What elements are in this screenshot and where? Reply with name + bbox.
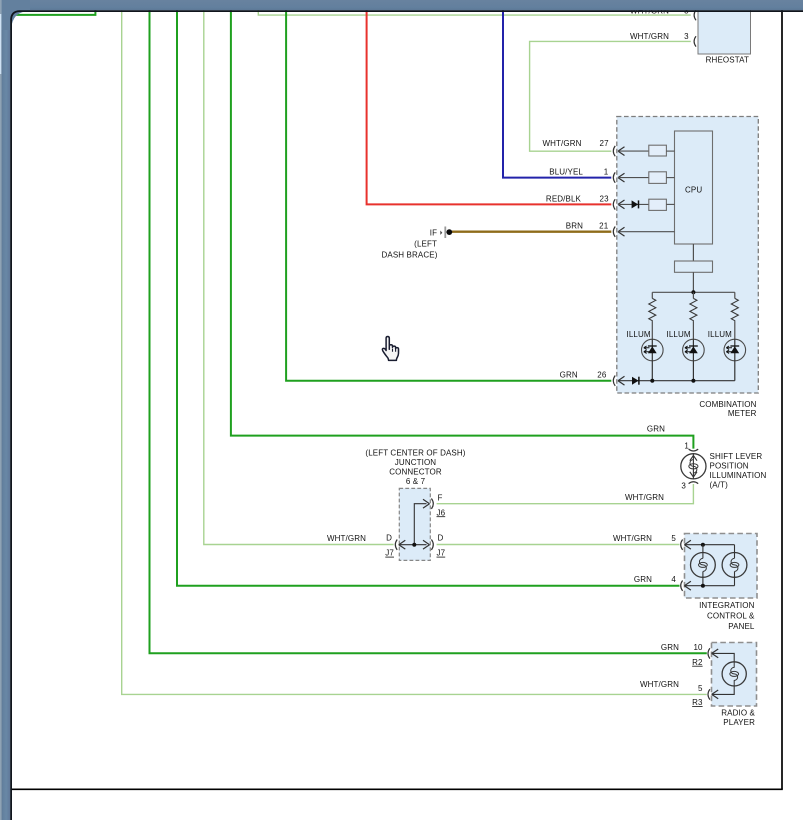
radio bulb wiring bottom [712,686,735,695]
svg-text:R2: R2 [692,658,703,667]
combination meter box [617,117,759,418]
junction pin D left arrow [399,540,406,549]
svg-text:5: 5 [698,684,703,693]
resistor block below CPU [675,261,713,272]
svg-text:WHT/GRN: WHT/GRN [640,680,679,689]
radio pin 5 arrow [712,690,719,699]
svg-text:27: 27 [600,139,610,148]
svg-text:DASH BRACE): DASH BRACE) [382,251,438,260]
radio bulb [722,662,746,686]
svg-text:10: 10 [693,643,703,652]
ILLUM bulb 2 [683,339,705,381]
label (LEFT DASH BRACE) [382,240,438,260]
wire WHT/GRN 5 to radio [122,10,707,694]
wire WHT/GRN top to rheostat pin (partially hidden by frame) [258,10,691,15]
svg-text:1: 1 [604,168,609,177]
meter pin 26 connector [613,376,624,386]
wire BLU/YEL 1 [503,10,611,178]
pin 27 input block [649,145,667,156]
junction pin D right arrow [423,540,430,549]
rheostat pin 3 connector [694,36,696,46]
pin 23 input block [649,199,667,210]
rheostat pin top connector [694,10,696,20]
radio bulb wiring top [712,653,735,662]
integration bottom wire [684,585,734,587]
rheostat box [698,6,751,64]
wire GRN 10 to radio [150,10,707,653]
svg-text:INTEGRATION: INTEGRATION [699,601,754,610]
meter pin 27 connector [613,146,648,156]
junction dot bus center [691,290,695,294]
svg-text:3: 3 [681,482,686,491]
mouse cursor hand pointer [382,337,398,361]
svg-text:BLU/YEL: BLU/YEL [549,168,583,177]
junction dot return bus 1 [650,379,654,383]
radio pin 5 connector arc [708,689,710,699]
svg-text:WHT/GRN: WHT/GRN [542,139,581,148]
pin 1 input block [649,172,667,184]
svg-text:GRN: GRN [560,371,578,380]
svg-text:PANEL: PANEL [728,622,755,631]
wire WHT/GRN junction pin D right to integration pin 5 [437,544,680,546]
svg-text:26: 26 [597,371,607,380]
svg-text:WHT/GRN: WHT/GRN [613,534,652,543]
svg-text:J6: J6 [437,508,446,517]
wire GRN stub top-left [12,10,95,15]
integration bulb right [722,545,747,586]
svg-text:PLAYER: PLAYER [723,718,755,727]
junction dot [412,543,416,547]
illumination top bus [652,291,735,293]
svg-text:CONTROL &: CONTROL & [707,612,755,621]
svg-text:F: F [438,493,443,502]
junction pin F arrow [423,499,430,508]
junction internal wire D-D [399,544,427,546]
svg-text:GRN: GRN [634,575,652,584]
svg-text:(LEFT CENTER OF DASH): (LEFT CENTER OF DASH) [365,448,465,457]
junction pin D left connector arc [395,540,397,550]
svg-text:CONNECTOR: CONNECTOR [389,467,442,476]
illumination return bus [618,380,735,382]
svg-text:ILLUMINATION: ILLUMINATION [710,471,767,480]
junction pin F connector arc [431,499,433,509]
svg-text:GRN: GRN [647,424,665,433]
wire GRN 26 to combination meter [286,10,611,381]
integration pin 4 connector arc [681,581,683,591]
svg-text:COMBINATION: COMBINATION [699,400,756,409]
resistor branch 1 [649,292,656,339]
label SHIFT LEVER POSITION ILLUMINATION (A/T) [710,452,767,490]
wire block to bus [692,272,694,292]
svg-text:RADIO &: RADIO & [721,709,755,718]
svg-text:4: 4 [671,575,676,584]
svg-text:J7: J7 [385,549,394,558]
svg-text:D: D [438,534,444,543]
svg-text:RHEOSTAT: RHEOSTAT [706,55,749,64]
svg-text:D: D [386,534,392,543]
junction pin D right connector arc [431,540,433,550]
svg-text:IF: IF [430,228,437,237]
integration control panel box [685,534,758,599]
diode at pin 23 [632,200,639,208]
CPU U1 [675,131,713,244]
junction dot integration bottom [701,584,705,588]
svg-text:WHT/GRN: WHT/GRN [327,534,366,543]
window frame left edge sliver [0,0,2,820]
wire pin1 block to CPU [666,177,674,179]
integration pin 4 arrow [684,581,691,590]
svg-text:METER: METER [728,409,757,418]
resistor branch 2 [690,292,697,339]
svg-text:J7: J7 [437,549,446,558]
integration pin 5 connector arc [681,540,683,550]
diode at pin 26 [632,377,639,385]
svg-text:POSITION: POSITION [710,461,749,470]
svg-text:BRN: BRN [566,222,583,231]
svg-text:5: 5 [671,534,676,543]
junction dot return bus 2 [691,379,695,383]
svg-text:ILLUM: ILLUM [627,330,651,339]
wire BRN 21 [452,230,611,232]
shift bulb pin 3 connector [689,482,699,484]
junction internal wire F [414,504,426,545]
svg-text:1: 1 [684,441,689,450]
svg-text:RED/BLK: RED/BLK [546,194,582,203]
window frame top bar [0,0,803,10]
ILLUM bulb 3 [724,339,746,381]
svg-text:(A/T): (A/T) [710,480,729,489]
svg-text:6 & 7: 6 & 7 [406,477,426,486]
wire pin27 block to CPU [666,150,674,152]
svg-text:(LEFT: (LEFT [414,240,437,249]
meter pin 23 connector [613,199,648,209]
window frame corner fill [0,0,30,30]
svg-text:SHIFT LEVER: SHIFT LEVER [710,452,763,461]
integration top wire [684,544,734,546]
meter pin 21 connector [613,227,674,237]
svg-text:3: 3 [684,32,689,41]
svg-text:JUNCTION: JUNCTION [395,458,437,467]
junction dot integration top [701,543,705,547]
label INTEGRATION CONTROL & PANEL [699,601,755,631]
wire WHT/GRN 3 to rheostat [530,41,691,151]
junction connector box J6/J7 [399,488,430,560]
wire GRN to shift lever illumination [231,10,694,449]
wire GRN 4 to integration panel [177,10,680,586]
wire WHT/GRN shift lever pin3 to junction pin F [437,484,694,504]
radio pin 10 arrow [712,649,719,658]
shift lever illumination bulb [681,454,706,479]
window frame left bar [0,0,10,820]
label RADIO & PLAYER [721,709,755,727]
svg-text:WHT/GRN: WHT/GRN [630,32,669,41]
wire pin23 block to CPU [666,203,674,205]
shift bulb pin 1 connector [689,449,699,451]
svg-text:ILLUM: ILLUM [667,330,691,339]
wire RED/BLK 23 [367,10,612,204]
svg-text:ILLUM: ILLUM [708,330,732,339]
meter pin 1 connector [613,172,648,182]
cpu output link [692,244,694,261]
radio and player box [712,643,757,707]
svg-text:R3: R3 [692,698,703,707]
svg-text:CPU: CPU [685,185,702,194]
svg-text:WHT/GRN: WHT/GRN [625,493,664,502]
svg-text:21: 21 [599,222,609,231]
wire WHT/GRN to junction pin D left [204,10,394,545]
svg-text:23: 23 [600,194,610,203]
diagram sheet right border [781,10,783,789]
ILLUM bulb 1 [642,339,664,381]
node IF (left dash brace) [430,227,452,239]
svg-text:GRN: GRN [661,643,679,652]
diagram sheet bottom border [11,788,783,790]
integration pin 5 arrow [684,540,691,549]
resistor branch 3 [731,292,738,339]
radio pin 10 connector arc [708,648,710,658]
integration bulb left [691,545,716,586]
label (LEFT CENTER OF DASH) JUNCTION CONNECTOR 6 & 7 [365,448,465,486]
